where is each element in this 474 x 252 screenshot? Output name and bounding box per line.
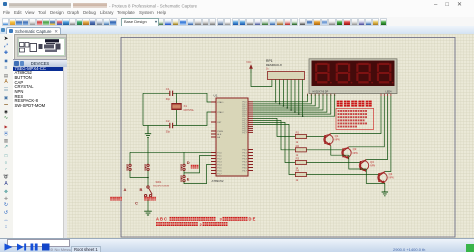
wire RP1 pin4 pull-up tap [282,80,284,106]
wire ground rail left of caps [142,93,144,125]
wire R1 to Q1 base [306,136,325,138]
junction RP1 tap 1 [275,101,277,103]
ground for transistors [382,192,388,196]
wire XTAL1 net top [143,93,211,102]
wire P0.6 to display segment [253,95,331,115]
svg-text:PSEN: PSEN [217,131,223,133]
junction RP1 tap 4 [286,107,288,109]
junction A-B bottom [147,177,149,179]
wire button B bottom to switch [147,171,149,186]
wire display digit1 to Q1 collector [331,96,381,134]
svg-text:NPN: NPN [389,177,394,180]
annotation note line 2 [338,113,367,115]
capacitor C1 [170,91,173,96]
wire display digit3 to Q3 collector [366,96,387,160]
button A [127,164,131,171]
svg-text:RST: RST [217,122,222,124]
wire XTAL2 net bottom [143,112,211,126]
svg-text:A: A [124,187,127,192]
wire P0.3 to display segment [253,95,319,109]
resistor R3 [295,157,306,170]
svg-text:A B C: A B C [156,217,167,222]
svg-text:SW-SPDT-MOM: SW-SPDT-MOM [153,186,169,188]
wire RP1 pin8 pull-up tap [298,80,300,115]
wire P0.7 to display segment [253,95,335,117]
wire R4 to Q4 base [306,174,379,176]
wire P0.0 to display segment [253,95,307,102]
wire display digit2 to Q2 collector [349,96,385,147]
svg-text:X1: X1 [184,104,188,108]
crystal X1 [172,104,181,110]
annotation box display note [336,108,374,129]
svg-text:U1: U1 [214,94,218,98]
wire P0.1 to display segment [253,95,311,104]
microcontroller U1 AT89C52 [211,94,253,184]
wire RP1 pin5 pull-up tap [286,80,288,109]
junction RP1 tap 7 [298,113,300,115]
svg-text:Q1: Q1 [335,134,339,138]
transistor Q4 [378,172,394,184]
wire button top rail [130,151,211,153]
transistor Q2 [342,147,358,159]
annotation note line 3 [338,116,367,118]
svg-text:- Proteus 8 Professional - Sch: - Proteus 8 Professional - Schematic Cap… [109,3,198,8]
junction RP1 tap 8 [302,115,304,117]
svg-text:RESPACK-8: RESPACK-8 [266,63,282,67]
annotation note line 6 [338,126,357,128]
svg-text:R2: R2 [296,144,300,148]
svg-text:VCC: VCC [246,61,251,64]
sheet border [121,37,455,237]
wire RP1 pin2 pull-up tap [275,80,277,102]
svg-text:XTAL2: XTAL2 [217,111,224,114]
svg-text:Q3: Q3 [370,160,374,164]
svg-text:30p: 30p [166,131,171,134]
svg-text:30p: 30p [166,98,171,101]
svg-text:D E: D E [249,217,256,222]
wire switch to ground [148,197,151,211]
7-segment display 4-digit common-cathode [307,59,397,96]
power VCC [250,69,252,74]
junction RP1 tap 3 [283,105,285,107]
wire E bottom to P1 pin [184,165,211,184]
wire P0.4 to display segment [253,95,323,111]
wire R3 to Q3 base [306,162,360,164]
wire Q4 emitter to ground [384,183,386,191]
wire P2.0 to R1 [253,118,295,136]
wire RP1 pin9 pull-up tap [302,80,304,117]
svg-text:C1: C1 [166,87,170,91]
ground for crystal caps [145,126,151,138]
wire P2.3 to R4 [253,124,295,174]
wire R2 to Q2 base [306,149,343,151]
wire Q2 emitter to Q3 emitter [349,155,367,169]
wire D-E middle link [183,171,185,176]
svg-text:HXD2X7-B DP: HXD2X7-B DP [313,91,329,94]
resistor R1 [295,131,306,144]
svg-text:C: C [135,200,138,205]
switch SW1 SW-SPDT-MOM [144,186,152,197]
svg-text:NPN: NPN [335,139,340,142]
wire Q1 emitter to Q2 emitter [331,146,349,156]
svg-text:R4: R4 [296,169,300,173]
ground for buttons [144,211,152,215]
svg-text:XTAL1: XTAL1 [217,101,224,104]
svg-text:C2: C2 [166,119,170,123]
capacitor C2 [170,123,173,128]
annotation note line 1 [338,110,367,112]
wire button rail vertical from crystal ground [147,138,149,152]
wire button A top lead [129,152,131,164]
wire RP1 pin7 pull-up tap [294,80,296,113]
wire button B top lead [147,152,149,164]
transistor Q1 [324,134,340,146]
label middle key [191,165,199,169]
svg-text:Q4: Q4 [389,172,393,176]
svg-text:Q2: Q2 [353,147,357,151]
resistor R2 [295,144,306,157]
junction RP1 tap 2 [279,103,281,105]
annotation note line 5 [338,123,367,125]
junction RP1 tap 5 [290,109,292,111]
wire P2.2 to R3 [253,122,295,162]
annotation line 1 A B C encoder pins [156,217,256,222]
label common-cathode display title [337,101,372,107]
wire P0.2 to display segment [253,95,315,106]
svg-text:NPN: NPN [370,165,375,168]
wire P2.1 to R2 [253,120,295,149]
button E [181,175,185,182]
wire crystal stubs [176,93,178,125]
svg-text:R3: R3 [296,157,300,161]
wire P0.5 to display segment [253,95,327,113]
wire display digit4 to Q4 collector [385,96,391,172]
annotation note line 4 [338,119,365,121]
wire RP1 pin3 pull-up tap [279,80,281,104]
wire button A bottom lead [130,171,148,178]
annotation line 2 encoder middle pins [156,222,228,227]
resistor pack RP1 RESPACK-8 [268,72,305,80]
wire Q3 emitter to Q4 emitter [366,169,385,183]
svg-text:R1: R1 [296,131,300,135]
wire button D top lead [183,152,185,164]
resistor R4 [295,169,306,182]
svg-text:NPN: NPN [353,152,358,155]
svg-text:LED4: LED4 [386,91,393,94]
svg-text:CRYSTAL: CRYSTAL [184,109,195,112]
label right rotate add [110,197,122,201]
button B [145,164,149,171]
svg-text:B: B [140,187,143,192]
wire D-E tap to P1 pin [184,156,211,173]
label left rotate subtract [144,197,156,201]
svg-text:E: E [187,176,190,181]
svg-text:ALE: ALE [217,133,222,136]
svg-text:AT89C52: AT89C52 [212,179,224,183]
transistor Q3 [359,160,375,172]
button D [181,164,185,171]
wire VCC to RP1 pin1 [251,73,272,87]
junction RP1 tap 6 [294,111,296,113]
wire RP1 pin6 pull-up tap [290,80,292,111]
svg-text:SW1: SW1 [156,180,162,184]
svg-text:D: D [187,160,190,165]
